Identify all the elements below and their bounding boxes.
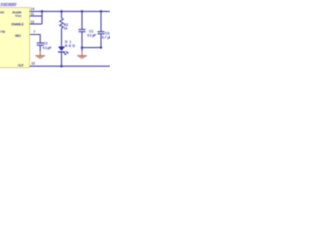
value 0.1 uF (C2) bbox=[43, 46, 52, 50]
ground (C2) bbox=[35, 51, 45, 58]
label C1 bbox=[89, 29, 93, 33]
wire: top net down to R2 bbox=[61, 11, 63, 18]
pin label Anode (left, clipped) bbox=[0, 11, 4, 15]
pin number 13 bbox=[31, 62, 35, 66]
svg-text:RED: RED bbox=[65, 44, 76, 48]
junction at (101,47.6) bbox=[100, 46, 102, 48]
wire: R2 to LED anode bbox=[61, 28, 63, 46]
svg-text:2Y10D6I0Z0F: 2Y10D6I0Z0F bbox=[0, 2, 17, 7]
pin number 12 bbox=[31, 20, 35, 24]
value 0.1 uF (C1) bbox=[87, 34, 96, 38]
wire: pin 12 stub bbox=[30, 23, 43, 25]
capacitor C1 bbox=[79, 30, 86, 32]
svg-text:14: 14 bbox=[31, 7, 35, 11]
value 4.7 uF (C3, clipped) bbox=[102, 36, 112, 40]
svg-text:Vcc: Vcc bbox=[15, 14, 22, 18]
svg-text:0.1 µF: 0.1 µF bbox=[43, 46, 52, 50]
pin label ENABLE (pin 12) bbox=[11, 22, 24, 26]
pin number 7 bbox=[33, 30, 35, 34]
wire: bottom net from pin 13 (OUT) to right edge bbox=[30, 65, 111, 67]
wire: C2 to ground bbox=[39, 45, 41, 51]
wire: pin 7 stub to C2 bbox=[30, 35, 41, 44]
label R2 bbox=[64, 23, 68, 27]
svg-text:Anode: Anode bbox=[0, 11, 4, 15]
svg-text:OUT: OUT bbox=[18, 63, 25, 67]
junction at (82,11) bbox=[81, 10, 84, 13]
title text (part number watermark) bbox=[0, 2, 17, 7]
capacitor C3 bbox=[98, 32, 105, 34]
LED emission arrows bbox=[64, 51, 69, 55]
junction at (42,11) bbox=[41, 10, 44, 13]
svg-text:1k: 1k bbox=[64, 27, 68, 31]
pin label Anode (pin 14) bbox=[12, 10, 22, 14]
junction at (61.5,11) bbox=[60, 10, 63, 13]
svg-text:7: 7 bbox=[33, 30, 35, 34]
LED D1 bbox=[58, 47, 65, 53]
svg-text:13: 13 bbox=[31, 62, 35, 66]
svg-text:4.7 µF: 4.7 µF bbox=[102, 36, 110, 40]
ground (C1) bbox=[77, 51, 87, 58]
op-amp U1 (regulator IC body, clipped at left edge) bbox=[0, 8, 30, 68]
svg-text:ENABLE: ENABLE bbox=[11, 22, 24, 26]
wire: top net down to C3 bbox=[100, 11, 102, 31]
pin label Vcc (pin 11) bbox=[15, 14, 22, 18]
svg-text:REG: REG bbox=[15, 34, 21, 38]
wire: C1 down to mid net bbox=[81, 32, 83, 48]
junction at (101,11) bbox=[100, 10, 103, 13]
pin label OUT (pin 13) bbox=[18, 63, 25, 67]
pin label REG (pin 7) bbox=[15, 34, 21, 38]
svg-text:C2: C2 bbox=[43, 41, 47, 45]
wire: top net down to C1 bbox=[81, 11, 83, 29]
label C3 (clipped at right edge) bbox=[105, 31, 109, 35]
wire: pin 11 stub bbox=[30, 15, 43, 17]
pin label FB (left edge) bbox=[0, 30, 5, 34]
wire: LED cathode to bottom net bbox=[61, 52, 63, 66]
junction at (61.5,66) bbox=[60, 65, 63, 68]
junction at (82,47.6) bbox=[81, 46, 84, 49]
svg-text:FB: FB bbox=[0, 30, 5, 34]
value 1k bbox=[64, 27, 68, 31]
resistor R2 bbox=[60, 18, 64, 28]
capacitor C2 bbox=[37, 43, 44, 45]
wire: C1 junction to ground bbox=[81, 48, 83, 52]
label RED bbox=[65, 44, 76, 48]
svg-text:0.1 µF: 0.1 µF bbox=[87, 34, 96, 38]
wire: top net from pin 14 to right edge bbox=[30, 10, 111, 12]
pin number 11 bbox=[31, 12, 35, 16]
wire: C3 down to mid net bbox=[100, 34, 102, 48]
wire: vertical tie pins 11/12 to top net bbox=[41, 11, 43, 24]
wire: mid net C1 to C3 bbox=[82, 47, 101, 49]
pin number 14 bbox=[31, 7, 35, 11]
label C2 bbox=[43, 41, 47, 45]
label D1 bbox=[65, 40, 71, 44]
